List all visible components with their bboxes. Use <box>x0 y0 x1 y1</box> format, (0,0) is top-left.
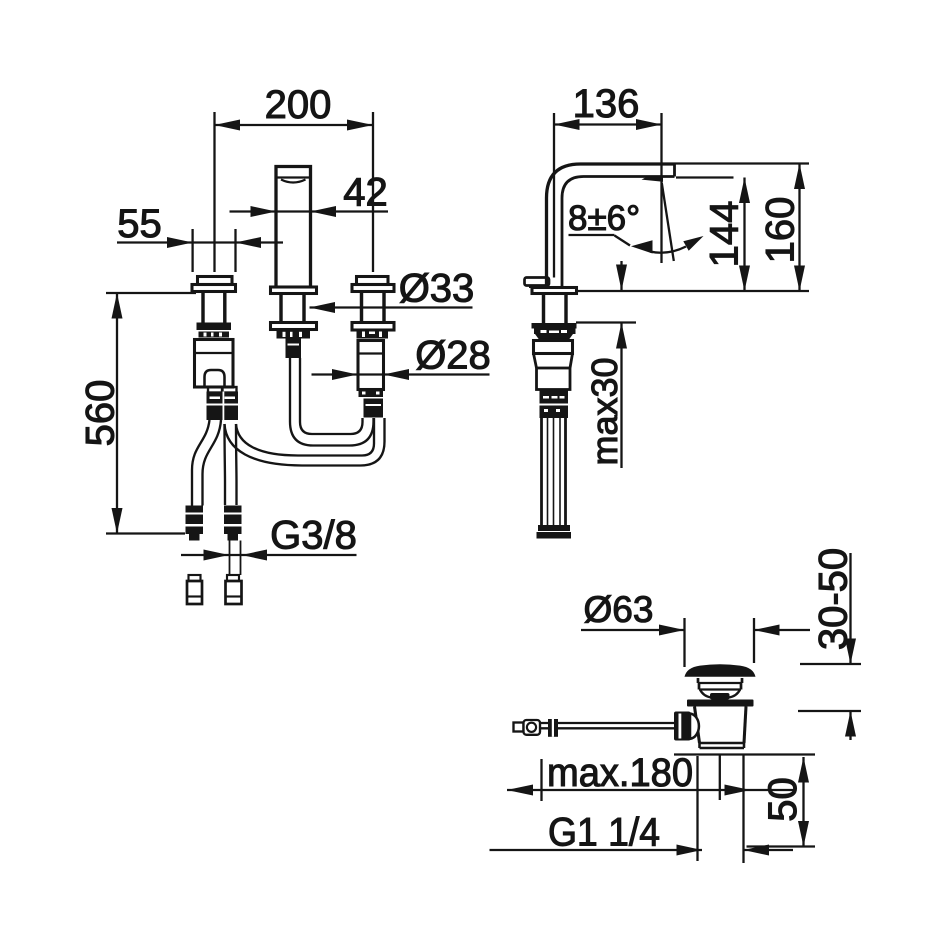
svg-text:Ø28: Ø28 <box>415 334 491 378</box>
svg-text:30-50: 30-50 <box>812 548 856 650</box>
svg-text:Ø33: Ø33 <box>399 267 475 311</box>
svg-text:8±6°: 8±6° <box>568 199 640 238</box>
svg-text:42: 42 <box>343 170 388 214</box>
svg-text:G1 1/4: G1 1/4 <box>548 811 660 855</box>
svg-text:max30: max30 <box>584 357 625 465</box>
svg-text:55: 55 <box>117 202 162 246</box>
svg-text:160: 160 <box>759 197 803 264</box>
svg-text:Ø63: Ø63 <box>584 589 654 630</box>
svg-text:144: 144 <box>703 201 747 268</box>
svg-text:max.180: max.180 <box>547 751 693 795</box>
svg-text:560: 560 <box>79 380 123 447</box>
svg-text:136: 136 <box>573 82 640 126</box>
svg-text:200: 200 <box>265 83 332 127</box>
svg-text:G3/8: G3/8 <box>270 514 357 558</box>
svg-text:50: 50 <box>761 777 805 822</box>
